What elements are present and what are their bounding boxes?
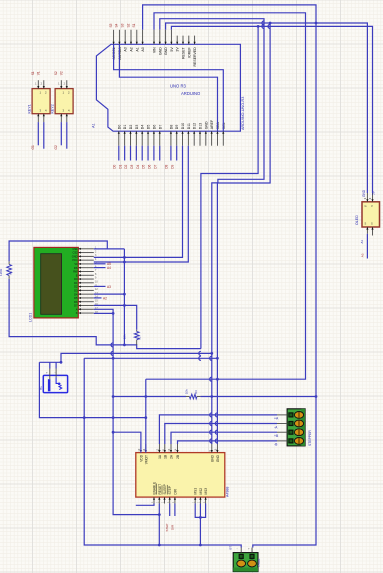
junction right rail — [315, 395, 318, 398]
wire: GND2 pin to OLED GND — [166, 23, 368, 193]
svg-text:D2: D2 — [124, 164, 128, 168]
wire MS1-MS3 tie — [195, 504, 205, 518]
LCD pin A — [78, 308, 94, 310]
svg-text:D8: D8 — [165, 164, 169, 168]
wire: branch to VDD — [113, 432, 141, 452]
svg-text:GND: GND — [362, 189, 366, 197]
stepper terminal pin 1 — [288, 412, 293, 417]
arduino bottom pin D12 — [193, 131, 195, 146]
svg-text:A4988: A4988 — [225, 487, 229, 497]
arduino top pin RESET — [182, 36, 184, 45]
svg-text:ENABLE: ENABLE — [153, 482, 157, 495]
svg-text:3V: 3V — [176, 47, 180, 52]
wire 1A row — [159, 415, 277, 444]
power terminal body — [233, 553, 258, 572]
wire MS2 to bus — [199, 504, 201, 546]
junction bus — [112, 357, 115, 360]
KEY2 bottom wires — [60, 122, 62, 145]
junction — [158, 544, 161, 547]
svg-text:D4: D4 — [141, 125, 145, 130]
arduino bottom pin SDA — [216, 131, 218, 146]
arduino top pin VIN — [153, 30, 155, 45]
svg-text:D6: D6 — [148, 164, 152, 168]
wire: LCD pin16 row to resistor R2 — [94, 305, 137, 329]
wire D6 down — [153, 146, 155, 161]
svg-text:S: S — [365, 222, 367, 226]
junction — [216, 357, 219, 360]
svg-text:10k: 10k — [185, 389, 189, 394]
A4988 bottom pin MS2 — [199, 497, 201, 503]
wire hops: GND columns over motor rows — [210, 413, 212, 417]
arduino bottom pin D10 — [182, 131, 184, 146]
svg-text:IOREF: IOREF — [187, 47, 191, 58]
svg-text:R3: R3 — [194, 390, 198, 394]
svg-text:D9: D9 — [170, 164, 174, 168]
arduino top pin A1 — [136, 30, 138, 45]
svg-text:S2: S2 — [54, 71, 58, 75]
wire: Z1 from 5V line to column x=200.9 — [201, 26, 258, 348]
LCD pin D3 — [78, 289, 94, 291]
power terminal pin 2 — [249, 554, 254, 559]
rail continues — [9, 279, 201, 349]
junction — [123, 256, 126, 259]
OLED body — [362, 202, 380, 227]
A4988 top pin 2A — [170, 444, 172, 453]
buzzer squiggle — [59, 385, 62, 389]
svg-text:A1: A1 — [135, 47, 139, 51]
bus y=353.8 — [61, 353, 212, 362]
wire: GND pin Z to column x=211.8 (with jog) — [160, 19, 264, 444]
stepper terminal pin 3 — [288, 430, 293, 435]
LCD pin K — [78, 312, 94, 314]
svg-text:D4: D4 — [74, 292, 78, 296]
wire: LCD pin1 row — [94, 248, 125, 250]
arduino bottom pin D9 — [176, 131, 178, 146]
wire 1B row — [165, 424, 277, 445]
svg-text:D12: D12 — [193, 123, 197, 129]
A4988 bottom pin MS1 — [194, 497, 196, 503]
svg-text:D10: D10 — [181, 123, 185, 129]
svg-text:S5: S5 — [109, 23, 113, 27]
arduino U1 body — [96, 44, 240, 131]
wire: VIN loop right side — [146, 13, 306, 379]
A4988 bottom pin MS3 — [205, 497, 207, 503]
LCD pin D5 — [78, 297, 94, 299]
svg-text:S1: S1 — [132, 23, 136, 27]
junction pin13 — [123, 293, 126, 296]
svg-text:D7: D7 — [153, 164, 157, 168]
svg-text:A4: A4 — [107, 266, 111, 270]
arduino bottom pin GND — [205, 131, 207, 146]
arduino top pin 3V — [176, 36, 178, 45]
arduino top pin A3 — [124, 30, 126, 45]
junction z1 feed — [257, 25, 260, 28]
svg-text:D0: D0 — [117, 125, 121, 130]
svg-text:OLED: OLED — [355, 215, 359, 225]
junction MS2 bus — [199, 544, 202, 547]
A4988 top pin GND — [211, 444, 213, 453]
LCD pin D7 — [78, 305, 94, 307]
svg-text:KEY1: KEY1 — [28, 104, 32, 113]
buzzer plate — [48, 379, 51, 391]
A4988 top pin 2B — [177, 444, 179, 453]
wire: A0 to 5V rail (top) — [143, 5, 316, 548]
arduino bottom pin D5 — [147, 131, 149, 146]
wire: 5V pin to OLED 5V — [171, 26, 372, 193]
buzzer pin2 internal wire — [56, 378, 59, 384]
wire: left drop to bottom bus — [84, 358, 241, 547]
stepper terminal pin 2 — [288, 421, 293, 426]
svg-text:STEP: STEP — [168, 486, 172, 494]
wire: SCL loop through body — [114, 44, 224, 131]
junction — [123, 261, 126, 264]
svg-text:A3: A3 — [124, 47, 128, 51]
svg-text:D6: D6 — [152, 125, 156, 130]
wire: LCD pin11 label A3 — [94, 285, 106, 287]
svg-text:+: + — [46, 371, 48, 375]
svg-text:D5: D5 — [142, 164, 146, 168]
junction VIN/GND2col — [216, 378, 219, 381]
svg-text:VCC: VCC — [72, 258, 78, 262]
arduino top pin GND — [165, 30, 167, 45]
svg-text:A3: A3 — [107, 285, 111, 289]
arduino bottom pin D4 — [141, 131, 143, 146]
wire: LCD vertical tie x=124.4 — [123, 249, 125, 345]
svg-text:A2: A2 — [103, 297, 107, 301]
svg-text:A1: A1 — [360, 240, 364, 244]
A4988 top pin 1B — [164, 444, 166, 453]
junction pin16 — [123, 304, 126, 307]
svg-text:D3: D3 — [135, 125, 139, 130]
junction pin18 — [112, 312, 115, 315]
wire D1 down — [124, 146, 126, 161]
svg-text:E: E — [76, 273, 78, 277]
wire D5 down — [147, 146, 149, 161]
svg-text:D5: D5 — [147, 125, 151, 130]
svg-text:D1: D1 — [74, 281, 78, 285]
svg-text:DIR: DIR — [171, 524, 175, 530]
junction vdd branch — [112, 431, 115, 434]
LCD pin RS — [78, 267, 94, 269]
stepper terminal X1 body — [287, 409, 305, 446]
svg-text:D9: D9 — [175, 125, 179, 130]
A4988 bottom pin ENABLE — [153, 497, 155, 503]
arduino bottom pin D1 — [124, 131, 126, 146]
svg-text:RS: RS — [74, 266, 78, 270]
wire D7 down — [159, 146, 161, 161]
svg-text:A2: A2 — [130, 47, 134, 51]
svg-text:VDD: VDD — [139, 454, 143, 461]
svg-text:D0: D0 — [74, 277, 78, 281]
A4988 bottom pin SLEEP — [164, 497, 166, 503]
LCD pin V0 — [78, 263, 94, 265]
svg-text:A0: A0 — [141, 47, 145, 51]
arduino top pin A2 — [130, 30, 132, 45]
wire: LCD pin17 to column — [94, 309, 160, 514]
wire 2B row — [178, 441, 278, 444]
LCD pin D0 — [78, 278, 94, 280]
button KEY2 — [55, 89, 73, 114]
wire: LCD pin5 label A5 — [94, 263, 106, 265]
wire: LCD pin14 label A2 — [94, 297, 102, 299]
svg-text:R2: R2 — [138, 336, 142, 340]
arduino bottom pin SCL — [222, 131, 224, 146]
wire: D10 to LCD row pin3 — [94, 146, 183, 258]
LCD pin VCC — [78, 259, 94, 261]
svg-text:K: K — [76, 311, 78, 315]
wire RESET to bus — [158, 504, 160, 546]
junction bottom rail — [83, 416, 86, 419]
svg-text:D7: D7 — [74, 304, 78, 308]
svg-text:2B: 2B — [176, 455, 180, 459]
svg-text:D3: D3 — [130, 164, 134, 168]
bus y=358.3 from bottom rail — [84, 357, 217, 359]
LCD pin CS1 — [78, 248, 94, 250]
wire 2A row — [171, 432, 277, 444]
svg-text:LCD1: LCD1 — [29, 313, 33, 322]
junction VMOT mid — [144, 395, 147, 398]
wire: buzzer rail down along bottom bus — [39, 362, 145, 417]
svg-text:D1: D1 — [118, 164, 122, 168]
svg-text:S: S — [371, 222, 373, 226]
arduino bottom pin D7 — [159, 131, 161, 146]
svg-text:RESERVED: RESERVED — [193, 47, 197, 67]
arduino bottom pin AREF — [211, 131, 213, 146]
junction z3 feed — [269, 22, 272, 25]
junction tie end — [123, 344, 126, 347]
svg-text:A1: A1 — [92, 123, 96, 128]
svg-text:S4: S4 — [115, 23, 119, 27]
LCD pin D1 — [78, 282, 94, 284]
svg-text:D3: D3 — [74, 288, 78, 292]
svg-text:GND: GND — [210, 454, 214, 462]
svg-text:RW: RW — [73, 270, 78, 274]
svg-text:RESET: RESET — [158, 484, 162, 495]
wire STEP down — [169, 504, 171, 517]
svg-text:1B: 1B — [163, 455, 167, 459]
buzzer top bus — [39, 361, 61, 363]
wire: SDA loop through body — [119, 44, 217, 131]
svg-text:V2: V2 — [59, 71, 63, 75]
svg-text:VMOT: VMOT — [144, 455, 148, 464]
svg-text:G1: G1 — [31, 145, 35, 149]
A4988 top pin 1A — [158, 444, 160, 453]
wire: LCD pin18 joins column — [94, 312, 113, 314]
LCD pin D4 — [78, 293, 94, 295]
resistor R1 120R (on rail) — [8, 261, 10, 264]
svg-text:G2: G2 — [54, 145, 58, 149]
svg-text:5V: 5V — [170, 47, 174, 52]
LCD pin E — [78, 274, 94, 276]
wire: Z3 from GND2 line to column x=217.4 — [217, 23, 270, 444]
svg-text:G: G — [365, 204, 367, 208]
A4988 bottom pin STEP — [169, 497, 171, 503]
button KEY1 — [32, 89, 50, 114]
junction buzzer — [60, 361, 63, 364]
svg-text:GND: GND — [72, 254, 78, 258]
svg-text:ARDUINO: ARDUINO — [181, 91, 201, 96]
wire D2 down — [130, 146, 132, 161]
arduino bottom pin D6 — [153, 131, 155, 146]
svg-text:ARDUINO-UNO-R3: ARDUINO-UNO-R3 — [241, 97, 245, 130]
svg-text:DIR: DIR — [173, 488, 177, 494]
svg-text:+B: +B — [274, 434, 279, 438]
LCD pin GND — [78, 255, 94, 257]
OLED pins — [366, 193, 368, 202]
A4988 top pin GND — [216, 444, 218, 453]
arduino top pin A0 — [142, 30, 144, 45]
svg-text:S1: S1 — [31, 71, 35, 75]
svg-text:D11: D11 — [187, 123, 191, 129]
wire D0 down — [118, 146, 120, 161]
svg-text:KEY2: KEY2 — [51, 104, 55, 113]
LCD screen — [41, 254, 62, 315]
svg-text:GND: GND — [216, 454, 220, 462]
svg-text:GND: GND — [158, 47, 162, 55]
svg-text:120R: 120R — [0, 268, 3, 276]
LCD body — [34, 247, 78, 318]
svg-text:AREF: AREF — [210, 120, 214, 129]
arduino bottom pin D0 — [118, 131, 120, 146]
svg-text:MS3: MS3 — [204, 488, 208, 495]
arduino bottom pin D13 — [199, 131, 201, 146]
stepper terminal pin 4 — [288, 438, 293, 443]
svg-text:D2: D2 — [129, 125, 133, 130]
wire: h396 VDD net with resistor R3 — [113, 396, 186, 398]
junction MS2 — [199, 516, 202, 519]
svg-text:D7: D7 — [158, 125, 162, 130]
resistor R2 10k (vertical) — [136, 330, 138, 332]
wire DIR down — [174, 504, 176, 517]
arduino bottom pin D3 — [135, 131, 137, 146]
wire: LCD pin6 label A4 — [94, 267, 106, 269]
svg-text:D1: D1 — [123, 125, 127, 130]
arduino top pin A4/SDA — [118, 30, 120, 45]
svg-text:+A: +A — [274, 417, 279, 421]
LCD pin CS2 — [78, 252, 94, 254]
arduino top pin GND — [159, 30, 161, 45]
svg-text:S3: S3 — [121, 23, 125, 27]
resistor R3 10k (horizontal) — [186, 396, 189, 398]
junction VMOT — [144, 416, 147, 419]
junction right rail top — [315, 22, 318, 25]
arduino top pin IOREF — [188, 36, 190, 45]
svg-text:D5: D5 — [74, 296, 78, 300]
wire: VMOT column — [145, 379, 147, 452]
svg-text:V0: V0 — [74, 262, 78, 266]
arduino top pin RESERVED — [194, 36, 196, 45]
A4988 bottom pin DIR — [174, 497, 176, 503]
wire D8 down — [170, 146, 172, 161]
LCD pin D2 — [78, 286, 94, 288]
arduino top pin A5/SCL — [113, 30, 115, 45]
A4988 top pin VMOT — [145, 444, 147, 453]
svg-text:MS1: MS1 — [194, 488, 198, 495]
wire hops: columns over buses — [199, 351, 201, 355]
svg-text:D2: D2 — [74, 285, 78, 289]
svg-text:D0: D0 — [112, 164, 116, 168]
wire D9 down — [176, 146, 178, 161]
svg-text:S2: S2 — [126, 23, 130, 27]
svg-text:UNO R3: UNO R3 — [170, 84, 186, 89]
junction — [210, 395, 213, 398]
svg-text:VIN: VIN — [153, 47, 157, 53]
svg-text:CS1: CS1 — [72, 247, 78, 251]
A4988 body — [136, 453, 225, 498]
svg-text:SLEEP: SLEEP — [163, 484, 167, 494]
wire ENABLE left — [136, 504, 154, 506]
wire: D11 to LCD row pin4 — [94, 146, 189, 262]
svg-text:CS2: CS2 — [72, 251, 78, 255]
arduino bottom pin D11 — [187, 131, 189, 146]
wire: LCD pin13 to tie — [94, 293, 125, 295]
svg-text:D6: D6 — [74, 300, 78, 304]
buzzer pins — [49, 369, 51, 380]
junction — [210, 352, 213, 355]
svg-text:A3: A3 — [360, 253, 364, 257]
power terminal pin 1 — [239, 554, 244, 559]
wire hops top feeds — [262, 21, 264, 25]
svg-text:V: V — [371, 204, 373, 208]
svg-text:STEPPER: STEPPER — [308, 430, 312, 446]
svg-text:GND: GND — [164, 47, 168, 55]
svg-text:MS2: MS2 — [199, 488, 203, 495]
svg-text:-: - — [237, 548, 238, 551]
A4988 top pin VDD — [140, 444, 142, 453]
wire D4 down — [141, 146, 143, 161]
svg-text:D13: D13 — [199, 123, 203, 129]
buzzer BZ1 body — [43, 375, 67, 392]
A4988 bottom pin RESET — [158, 497, 160, 503]
arduino bottom pin D2 — [130, 131, 132, 146]
junction h396 — [112, 395, 115, 398]
LCD pin D6 — [78, 301, 94, 303]
wire: riser to left rail (with 120R resistor inline) — [9, 241, 107, 261]
OLED bottom wire + labels — [366, 234, 368, 259]
svg-text:D8: D8 — [169, 125, 173, 130]
svg-text:RESET: RESET — [182, 46, 186, 59]
svg-text:V1: V1 — [36, 71, 40, 75]
svg-text:10k: 10k — [123, 334, 127, 339]
svg-text:GND: GND — [204, 121, 208, 129]
arduino bottom pin D8 — [170, 131, 172, 146]
svg-text:STEP: STEP — [165, 524, 169, 532]
buzzer pin risers — [49, 362, 51, 368]
svg-text:R1: R1 — [8, 271, 12, 275]
wire D3 down — [135, 146, 137, 161]
svg-text:PWR1: PWR1 — [257, 558, 261, 567]
junction enable col — [112, 416, 115, 419]
KEY1 bottom wires — [37, 122, 39, 145]
svg-text:-: - — [55, 371, 56, 375]
svg-text:A: A — [76, 307, 78, 311]
LCD pin RW — [78, 270, 94, 272]
arduino top pin 5V — [170, 30, 172, 45]
svg-text:D4: D4 — [136, 164, 140, 168]
